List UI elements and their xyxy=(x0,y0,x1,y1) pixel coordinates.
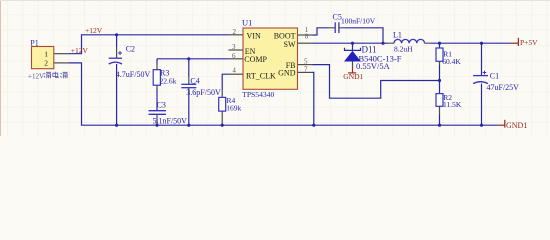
svg-text:P+5V: P+5V xyxy=(520,38,538,47)
svg-text:GND1: GND1 xyxy=(506,121,527,130)
svg-text:7: 7 xyxy=(304,65,308,73)
svg-text:C3: C3 xyxy=(157,101,166,110)
svg-text:C1: C1 xyxy=(490,72,499,81)
svg-text:VIN: VIN xyxy=(247,31,261,40)
svg-text:+12V: +12V xyxy=(85,26,103,35)
svg-text:U1: U1 xyxy=(242,17,252,27)
svg-text:P1: P1 xyxy=(30,38,38,47)
svg-text:RT_CLK: RT_CLK xyxy=(246,72,276,81)
svg-text:BOOT: BOOT xyxy=(274,31,296,40)
svg-text:60.4K: 60.4K xyxy=(442,57,461,66)
svg-text:SW: SW xyxy=(284,40,296,49)
svg-text:5.1nF/50V: 5.1nF/50V xyxy=(153,116,188,125)
svg-text:169k: 169k xyxy=(226,103,241,112)
svg-text:C4: C4 xyxy=(190,76,199,85)
svg-text:1: 1 xyxy=(44,49,48,58)
svg-text:3: 3 xyxy=(232,43,236,51)
svg-text:COMP: COMP xyxy=(244,55,267,64)
svg-text:L1: L1 xyxy=(393,31,402,40)
svg-text:6: 6 xyxy=(232,52,236,60)
svg-text:+12V: +12V xyxy=(71,46,89,55)
svg-text:GND1: GND1 xyxy=(343,72,363,81)
svg-text:TPS54340: TPS54340 xyxy=(242,90,274,99)
svg-text:22.6k: 22.6k xyxy=(160,76,177,85)
svg-text:47uF/25V: 47uF/25V xyxy=(487,83,520,92)
svg-text:C2: C2 xyxy=(126,45,135,54)
svg-text:4: 4 xyxy=(232,66,236,74)
svg-text:8: 8 xyxy=(305,33,309,41)
svg-text:4.7uF/50V: 4.7uF/50V xyxy=(116,70,151,79)
svg-text:0.55V/5A: 0.55V/5A xyxy=(356,61,391,71)
svg-text:GND: GND xyxy=(278,69,296,78)
svg-text:2: 2 xyxy=(233,28,237,36)
svg-text:+12V: +12V xyxy=(28,73,44,81)
svg-text:100nF/10V: 100nF/10V xyxy=(341,17,376,26)
svg-text:2: 2 xyxy=(44,59,48,68)
svg-text:8.2uH: 8.2uH xyxy=(394,44,413,53)
svg-text:11.5K: 11.5K xyxy=(443,100,462,109)
svg-text:3.6pF/50V: 3.6pF/50V xyxy=(186,88,221,97)
